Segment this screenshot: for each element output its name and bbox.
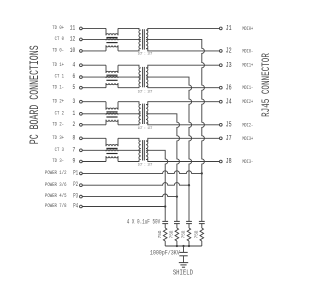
wire T4 secondary bottom to J8 (146, 160, 219, 162)
junction P4 / CT line (164, 205, 166, 207)
capacitor C3 0.1uF 50V (174, 220, 180, 222)
choke L4 bottom winding (106, 156, 118, 158)
resistor R2 75 ohm (187, 228, 191, 241)
svg-text:P2: P2 (73, 182, 78, 189)
svg-text:J7: J7 (226, 134, 232, 142)
wire P4 to centre-tap node (with hops) (82, 206, 165, 208)
wire choke to transformer T3 bottom (118, 123, 139, 125)
wire C1 to R1 (201, 224, 203, 228)
choke L4 core bar lower (106, 153, 117, 155)
wire TD 1- to choke L1 (82, 87, 106, 89)
wire C4 to R4 (164, 224, 166, 228)
pin J3 (MDI1+) terminal circle (219, 64, 222, 67)
pin J8 (MDI3-) terminal circle (219, 160, 222, 163)
pin 10 terminal circle (80, 50, 83, 53)
transformer T2 core (142, 67, 144, 87)
svg-text:J3: J3 (226, 61, 232, 69)
choke L3 core bar lower (106, 116, 117, 118)
choke L3 top winding jog in (105, 102, 107, 110)
choke L2 bottom winding jog in (105, 83, 107, 88)
pin 12 terminal circle (80, 38, 83, 41)
svg-text:P3: P3 (73, 193, 78, 200)
wire CT 1 center tap to transformer T2 (82, 76, 141, 78)
wire T3 secondary centre tap to termination (node CT2) (146, 114, 179, 222)
pin 7 terminal circle (80, 149, 83, 152)
junction P1 / CT line (201, 172, 203, 174)
wire C2 to R2 (188, 224, 190, 228)
svg-text:4 X 0.1uF 50V: 4 X 0.1uF 50V (127, 219, 161, 226)
pin 1 terminal circle (80, 112, 83, 115)
choke L1 core bar upper (106, 37, 117, 39)
pin J6 (MDI1-) terminal circle (219, 86, 222, 89)
svg-text:1CT : 1CT: 1CT : 1CT (138, 90, 153, 95)
wire T2 secondary centre tap to termination (node CT1) (146, 77, 192, 221)
choke L1 middle winding (106, 39, 118, 41)
resistor R4 75 ohm (163, 228, 167, 241)
choke L4 top winding (106, 145, 118, 147)
wire T2 secondary top to J3 (146, 65, 219, 68)
choke L2 core bar lower (106, 79, 117, 81)
svg-text:MDI2+: MDI2+ (242, 100, 253, 106)
svg-text:TD 3-: TD 3- (52, 157, 64, 164)
transformer T3 core (142, 104, 144, 124)
svg-text:SHIELD: SHIELD (173, 269, 193, 277)
pin 2 terminal circle (80, 123, 83, 126)
wire R2 to common rail (188, 241, 190, 246)
wire T1 secondary bottom to J2 (146, 49, 219, 51)
svg-text:MDI2-: MDI2- (242, 123, 253, 129)
pin P3 terminal circle (80, 195, 83, 198)
svg-text:TD 2+: TD 2+ (52, 98, 64, 105)
svg-text:TD 0+: TD 0+ (52, 24, 64, 31)
wire choke to transformer T3 top (118, 102, 139, 105)
capacitor C5 1000pF/3KV (179, 251, 187, 253)
wire CT 2 center tap to transformer T3 (82, 113, 141, 115)
wire T3 secondary bottom to J5 (146, 123, 219, 125)
choke L4 bottom winding jog in (105, 156, 107, 161)
svg-text:10: 10 (70, 46, 76, 54)
wire P3 to centre-tap node (with hops) (82, 194, 177, 197)
wire choke to transformer T2 bottom (118, 86, 139, 87)
choke L4 top winding jog in (105, 138, 107, 146)
choke L2 core bar upper (106, 74, 117, 76)
wire R3 to common rail (176, 241, 178, 246)
svg-text:MDI0+: MDI0+ (242, 26, 253, 32)
svg-text:75Ω: 75Ω (170, 230, 175, 238)
pin J4 (MDI2+) terminal circle (219, 100, 222, 103)
wire choke to transformer T2 top (118, 65, 139, 68)
svg-text:RJ45 CONNECTOR: RJ45 CONNECTOR (260, 53, 273, 117)
svg-text:TD 1+: TD 1+ (52, 61, 64, 68)
svg-text:POWER 7/8: POWER 7/8 (45, 202, 67, 209)
transformer T4 secondary winding (146, 141, 148, 160)
choke L4 middle winding (106, 150, 118, 152)
svg-text:POWER 4/5: POWER 4/5 (45, 193, 67, 200)
shield ground symbol (179, 262, 188, 264)
pin 9 terminal circle (80, 160, 83, 163)
wire choke to transformer T4 top (118, 138, 139, 141)
junction P3 / CT line (176, 195, 178, 197)
svg-text:7: 7 (73, 146, 76, 154)
wire rail to shield capacitor (183, 246, 185, 252)
svg-text:J2: J2 (226, 47, 232, 55)
junction rail / shield drop (182, 245, 184, 247)
choke L4 bottom winding jog out (117, 156, 119, 161)
svg-text:6: 6 (73, 72, 76, 80)
wire P1 to centre-tap node (with hops) (82, 171, 202, 174)
choke L2 middle winding (106, 76, 118, 78)
svg-text:J4: J4 (226, 98, 232, 106)
junction rail / R2 branch (188, 245, 190, 247)
svg-text:8: 8 (73, 134, 76, 142)
pin 6 terminal circle (80, 76, 83, 79)
wire TD 0- to choke L0 (82, 50, 106, 52)
wire CT 0 center tap to transformer T1 (82, 38, 141, 40)
svg-text:5: 5 (73, 83, 76, 91)
svg-text:4: 4 (73, 60, 76, 68)
choke L1 top winding jog in (105, 28, 107, 35)
choke L1 core bar lower (106, 42, 117, 44)
pin 4 terminal circle (80, 64, 83, 67)
svg-text:P4: P4 (73, 203, 78, 210)
transformer T3 secondary winding (146, 105, 148, 124)
wire T1 secondary top to J1 (146, 28, 219, 30)
svg-text:TD 1-: TD 1- (52, 84, 64, 91)
transformer T4 primary winding (139, 141, 141, 160)
wire T2 secondary bottom to J6 (146, 86, 219, 87)
pin J2 (MDI0-) terminal circle (219, 50, 222, 53)
svg-text:TD 3+: TD 3+ (52, 134, 64, 141)
wire P2 to centre-tap node (with hops) (82, 183, 189, 186)
common termination rail (165, 245, 202, 247)
choke L2 bottom winding (106, 83, 118, 85)
svg-text:J6: J6 (226, 84, 232, 92)
choke L3 top winding (106, 108, 118, 110)
transformer T1 primary winding (139, 30, 141, 49)
svg-text:9: 9 (73, 157, 76, 165)
svg-text:1CT : 1CT: 1CT : 1CT (138, 52, 153, 57)
wire R1 to common rail (201, 241, 203, 246)
pin 11 terminal circle (80, 27, 83, 30)
capacitor C1 0.1uF 50V (199, 220, 205, 222)
wire choke to transformer T4 bottom (118, 160, 139, 162)
svg-text:POWER 1/2: POWER 1/2 (45, 169, 67, 176)
svg-text:3: 3 (73, 97, 76, 105)
pin P2 terminal circle (80, 184, 83, 187)
svg-text:1CT : 1CT: 1CT : 1CT (138, 127, 153, 132)
svg-text:CT 3: CT 3 (55, 146, 64, 153)
wire TD 2- to choke L2 (82, 124, 106, 126)
pin 5 terminal circle (80, 86, 83, 89)
svg-text:J1: J1 (226, 24, 232, 32)
wire TD 0+ to choke L0 (82, 27, 106, 29)
wire CT 3 center tap to transformer T4 (82, 149, 141, 151)
svg-text:1: 1 (73, 109, 76, 117)
choke L2 top winding jog in (105, 65, 107, 73)
choke L1 top winding (106, 34, 118, 36)
wire TD 1+ to choke L1 (82, 64, 106, 66)
pin J5 (MDI2-) terminal circle (219, 123, 222, 126)
svg-text:75Ω: 75Ω (182, 230, 187, 238)
transformer T2 primary winding (139, 68, 141, 87)
svg-text:MDI3-: MDI3- (242, 160, 253, 166)
svg-text:MDI0-: MDI0- (242, 49, 253, 55)
junction rail / R3 branch (176, 245, 178, 247)
choke L3 bottom winding (106, 120, 118, 122)
choke L4 top winding jog out (117, 138, 119, 146)
svg-text:12: 12 (70, 35, 76, 43)
svg-text:POWER 3/6: POWER 3/6 (45, 181, 67, 188)
wire T4 secondary centre tap to termination (node CT3) (146, 150, 168, 221)
resistor R3 75 ohm (175, 228, 179, 241)
svg-text:PC BOARD CONNECTIONS: PC BOARD CONNECTIONS (29, 45, 43, 144)
svg-text:TD 2-: TD 2- (52, 121, 64, 128)
svg-text:1CT : 1CT: 1CT : 1CT (138, 163, 153, 168)
choke L3 middle winding (106, 113, 118, 115)
svg-text:J5: J5 (226, 121, 232, 129)
wire T1 secondary centre tap to termination (node CT0) (146, 39, 204, 221)
transformer T2 secondary winding (146, 68, 148, 87)
pin P1 terminal circle (80, 172, 83, 175)
svg-text:MDI1-: MDI1- (242, 86, 253, 92)
choke L3 bottom winding jog in (105, 120, 107, 125)
capacitor C2 0.1uF 50V (186, 220, 192, 222)
wire choke to transformer T1 top (118, 28, 139, 30)
svg-text:P1: P1 (73, 170, 78, 177)
transformer T1 core (142, 29, 144, 49)
wire TD 3- to choke L3 (82, 161, 106, 163)
resistor R1 75 ohm (200, 228, 204, 241)
svg-text:11: 11 (70, 24, 76, 32)
choke L4 core bar upper (106, 147, 117, 149)
junction P2 / CT line (188, 184, 190, 186)
svg-text:TD 0-: TD 0- (52, 47, 64, 54)
transformer T4 core (142, 140, 144, 160)
pin P4 terminal circle (80, 205, 83, 208)
pin 3 terminal circle (80, 100, 83, 103)
choke L2 bottom winding jog out (117, 83, 119, 88)
wire choke to transformer T1 bottom (118, 49, 139, 51)
svg-text:2: 2 (73, 120, 76, 128)
svg-text:CT 0: CT 0 (55, 35, 64, 42)
wire R4 to common rail (164, 241, 166, 246)
svg-text:75Ω: 75Ω (158, 230, 163, 238)
choke L2 top winding jog out (117, 65, 119, 73)
pin 8 terminal circle (80, 137, 83, 140)
svg-text:CT 1: CT 1 (55, 73, 64, 80)
svg-text:J8: J8 (226, 157, 232, 165)
wire TD 3+ to choke L3 (82, 137, 106, 139)
wire TD 2+ to choke L2 (82, 101, 106, 103)
choke L3 core bar upper (106, 111, 117, 113)
pin J7 (MDI3+) terminal circle (219, 137, 222, 140)
capacitor C4 0.1uF 50V (162, 220, 168, 222)
svg-text:MDI1+: MDI1+ (242, 63, 253, 69)
svg-text:1000pF/3KV: 1000pF/3KV (150, 249, 181, 257)
choke L1 bottom winding (106, 45, 118, 47)
svg-text:75Ω: 75Ω (195, 230, 200, 238)
choke L1 top winding jog out (117, 28, 119, 35)
svg-text:CT 2: CT 2 (55, 110, 64, 117)
choke L3 top winding jog out (117, 102, 119, 110)
choke L1 bottom winding jog out (117, 45, 119, 51)
choke L2 top winding (106, 71, 118, 73)
pin J1 (MDI0+) terminal circle (219, 27, 222, 30)
transformer T1 secondary winding (146, 30, 148, 49)
wire C3 to R3 (176, 224, 178, 228)
wire capacitor to shield ground (183, 256, 185, 263)
wire T3 secondary top to J4 (146, 102, 219, 105)
svg-text:MDI3+: MDI3+ (242, 136, 253, 142)
choke L3 bottom winding jog out (117, 120, 119, 125)
choke L1 bottom winding jog in (105, 45, 107, 51)
transformer T3 primary winding (139, 105, 141, 124)
wire T4 secondary top to J7 (146, 138, 219, 141)
